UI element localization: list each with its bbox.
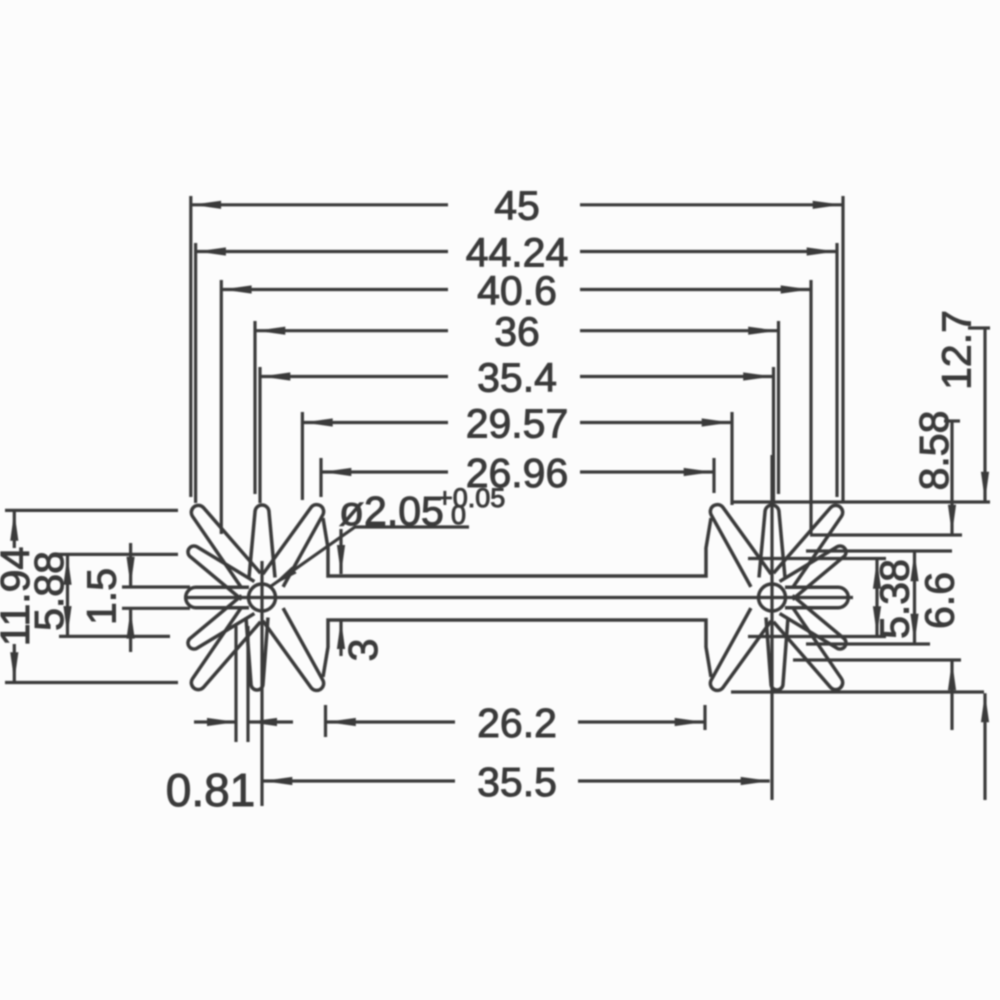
left NW inner fin — [188, 546, 254, 600]
right S fin — [766, 618, 788, 691]
extension line left 26.96 — [319, 458, 322, 497]
dimension 35.4 — [261, 375, 448, 378]
left NW outer fin — [191, 505, 260, 587]
svg-text:29.57: 29.57 — [466, 400, 569, 446]
right NE outer fin — [774, 505, 843, 587]
svg-text:3: 3 — [340, 639, 386, 662]
right SW fin — [710, 608, 771, 690]
left N fin — [249, 505, 275, 578]
dimension 11.94 — [5, 509, 178, 512]
dimension 36 — [256, 329, 448, 332]
dimension 6.6 — [806, 549, 952, 552]
right NE inner fin — [780, 546, 846, 600]
svg-text:ø2.05: ø2.05 — [339, 488, 444, 534]
svg-text:36: 36 — [494, 309, 540, 355]
dimension 12.7 mirror bottom — [731, 690, 984, 693]
left SW outer fin — [191, 607, 260, 689]
right N fin — [759, 505, 785, 578]
horizontal centerline — [184, 596, 853, 599]
left NE fin — [263, 505, 324, 587]
extension line right 35.4 — [772, 367, 775, 503]
left hub vertical centerline — [260, 561, 263, 806]
dimension 26.96 — [322, 470, 448, 473]
hole callout leader Ø2.05 — [271, 527, 470, 587]
web bottom edge — [323, 620, 711, 677]
dimension 40.6 — [223, 288, 448, 291]
dimension 26.2 — [324, 705, 327, 737]
left mounting hole — [249, 584, 276, 611]
extension line right 45 — [841, 196, 844, 503]
right mounting hole — [759, 584, 786, 611]
svg-text:35.5: 35.5 — [477, 759, 557, 805]
svg-text:5.88: 5.88 — [26, 551, 72, 631]
dimension 45 — [192, 203, 448, 206]
svg-text:12.7: 12.7 — [933, 310, 979, 390]
web top edge — [323, 518, 711, 576]
left SE fin — [263, 608, 324, 690]
extension line right 36 — [777, 321, 780, 494]
dimension 29.57 — [304, 421, 448, 424]
svg-text:5.38: 5.38 — [871, 559, 917, 639]
dimension 8.58 mirror bottom — [793, 658, 961, 661]
svg-text:0: 0 — [451, 500, 466, 530]
right NW fin — [710, 505, 771, 587]
dimension 12.7 — [968, 326, 990, 329]
dimension 3 (web thickness) — [339, 529, 342, 574]
svg-text:8.58: 8.58 — [911, 411, 957, 491]
extension line right 26.96 — [712, 458, 715, 493]
dimension 5.38 — [748, 557, 886, 560]
svg-text:40.6: 40.6 — [477, 267, 557, 313]
extension line right 29.57 — [730, 412, 733, 505]
extension line left 29.57 — [301, 412, 304, 500]
svg-text:6.6: 6.6 — [916, 572, 962, 629]
extension line left 35.4 — [258, 367, 261, 503]
right SE outer fin — [774, 607, 843, 689]
extension line left 36 — [253, 321, 256, 494]
svg-text:45: 45 — [494, 183, 540, 229]
left S fin — [246, 618, 268, 691]
dimension 8.58 — [944, 419, 960, 422]
extension line left 40.6 — [220, 280, 223, 534]
dimension 1.5 — [122, 585, 190, 588]
svg-text:26.2: 26.2 — [477, 700, 557, 746]
extension line right 40.6 — [809, 280, 812, 534]
dimension 5.88 — [57, 553, 178, 556]
right SE inner fin — [780, 596, 846, 650]
svg-text:1.5: 1.5 — [78, 568, 124, 625]
dimension 0.81 — [234, 626, 237, 742]
extension line left 44.24 — [194, 243, 197, 503]
extension line left 45 — [189, 196, 192, 497]
svg-text:+0.05: +0.05 — [437, 483, 505, 513]
left SW inner fin — [188, 596, 254, 650]
extension line right 44.24 — [835, 243, 838, 497]
right E fin — [785, 585, 838, 589]
svg-text:0.81: 0.81 — [166, 764, 256, 816]
right hub vertical centerline — [770, 455, 773, 800]
dimension 44.24 — [197, 250, 448, 253]
dimension 35.5 — [263, 779, 455, 782]
svg-text:35.4: 35.4 — [477, 354, 557, 400]
left W fin — [196, 585, 249, 589]
